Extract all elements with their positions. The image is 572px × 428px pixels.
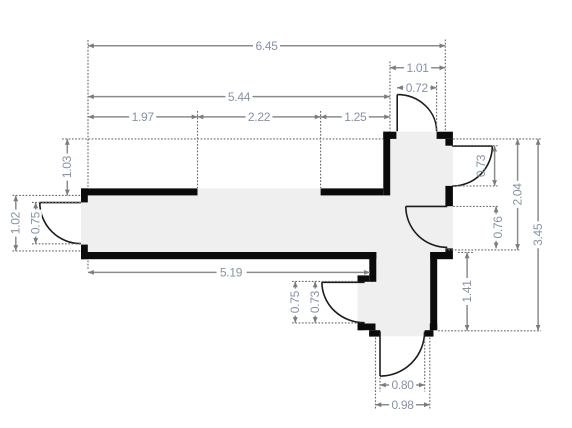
extension: 1.97/2.22 boundary [197, 111, 199, 188]
wall: wing top, left of door [383, 132, 396, 139]
extension: bottom door leaf left (0.80) [379, 378, 381, 392]
dim line 0.80 [380, 384, 425, 386]
extension: corridor inner-left below (5.19) [87, 261, 89, 270]
door: lower wing bottom exterior door swing arc [380, 332, 425, 377]
extension: top door right (0.72) [436, 82, 438, 131]
arrows for dim 1.02 (vertical) [13, 195, 18, 201]
wall: wing right, piece between right door and interior door [445, 186, 453, 206]
dim line 0.75 lower door [294, 281, 296, 323]
wall: lower wing left, below door [358, 323, 365, 331]
extension: wing inner-right [444, 40, 446, 132]
door: corridor left exterior door swing arc [40, 203, 81, 244]
wall: bottom door right jamb [425, 330, 434, 336]
extension: wing inner-left [389, 62, 391, 132]
svg-text:3.45: 3.45 [531, 223, 545, 246]
svg-text:0.72: 0.72 [406, 81, 429, 95]
extension: left door bottom [32, 243, 81, 245]
dim line 1.02 [15, 195, 17, 251]
label 6.45 [253, 39, 280, 52]
svg-text:0.80: 0.80 [392, 378, 415, 392]
svg-text:5.19: 5.19 [220, 266, 243, 280]
dim line 0.73 right door [494, 146, 496, 186]
extension: 2.22/1.25 boundary [320, 111, 322, 188]
dim line 5.19 [88, 271, 370, 273]
label 1.02 (rotated) [9, 210, 22, 237]
arrows for dim 5.19 [88, 270, 94, 275]
extension: left door top [32, 201, 81, 203]
dim line 0.75 left door [35, 202, 37, 243]
wall: corridor left, stub above door [81, 188, 88, 202]
wall: corridor top, left segment [81, 188, 198, 195]
door: wing right exterior door swing arc [452, 146, 492, 186]
arrows for dim 0.75 left door (vertical) [33, 202, 38, 208]
dim line 1.25 [321, 116, 390, 118]
door: wing top exterior door swing arc [397, 95, 436, 132]
label 1.25 [342, 110, 369, 123]
wall: lower wing right [430, 252, 437, 330]
svg-text:1.41: 1.41 [460, 280, 474, 303]
extension: wing top inner, long left [62, 138, 383, 140]
floor area [81, 132, 453, 337]
arrows for dim 1.97 [88, 115, 94, 120]
svg-text:0.76: 0.76 [491, 216, 505, 239]
arrows for dim 5.44 [88, 94, 94, 99]
label 0.76 (rotated) [491, 214, 504, 241]
arrows for dim 1.41 (vertical) [465, 252, 470, 258]
dim line 1.41 [466, 252, 468, 330]
wall: lower wing left door top jamb [358, 275, 370, 281]
label 0.73 lower door (rotated) [308, 289, 321, 316]
wall: lower wing left vertical piece [369, 252, 376, 282]
extension: bottom door inner right (0.80) [424, 338, 426, 392]
wall: corridor left, stub below door [81, 245, 88, 260]
dim line 1.97 [88, 116, 198, 118]
arrows for dim 0.76 (vertical) [494, 206, 499, 212]
dim line 0.73 lower door [314, 281, 316, 323]
label 2.22 [246, 110, 273, 123]
arrows for dim 0.98 [376, 402, 382, 407]
label 0.98 [389, 398, 416, 411]
label 0.75 left door (rotated) [29, 210, 42, 237]
label 5.19 [217, 266, 247, 279]
arrows for dim 0.72 [397, 85, 403, 90]
wall: lower wing bottom, right of door [430, 324, 437, 331]
arrows for dim 1.25 [321, 115, 327, 120]
dim line 0.72 [397, 87, 437, 89]
dim line 1.03 [66, 139, 68, 196]
extension: corridor top inner, left [13, 194, 82, 196]
wall: lower wing bottom, left of door [358, 324, 376, 331]
wall: corridor bottom, right piece under wing [430, 252, 453, 259]
svg-text:2.22: 2.22 [248, 110, 271, 124]
label 2.04 (rotated) [511, 181, 524, 208]
label 1.01 [404, 61, 431, 74]
door: lower wing left exterior door swing arc [322, 282, 365, 322]
extension: wing top inner, right [453, 138, 541, 140]
arrows for dim 0.73 lower door (vertical) [313, 281, 318, 287]
door: wing interior door swing arc [406, 206, 448, 247]
wall: bottom door left jamb [369, 330, 380, 336]
arrows for dim 0.73 right door (vertical) [492, 146, 497, 152]
svg-text:1.97: 1.97 [132, 110, 155, 124]
dim line 5.44 [88, 96, 390, 98]
extension: right door bottom [453, 185, 497, 187]
extension: lower-left door top [292, 280, 357, 282]
label 1.03 (rotated) [60, 154, 73, 181]
arrows for dim 0.80 [380, 383, 386, 388]
label 0.75 lower door (rotated) [288, 289, 301, 316]
extension: right door top [453, 145, 497, 147]
svg-text:2.04: 2.04 [510, 183, 524, 206]
label 0.72 [403, 81, 430, 94]
extension: 1.41 top [458, 251, 474, 253]
dimension lines [16, 46, 538, 405]
label 3.45 (rotated) [531, 221, 544, 248]
dim line 0.98 [376, 404, 430, 406]
arrows for dim 1.01 [390, 65, 396, 70]
label 1.97 [129, 110, 156, 123]
extension: interior door top [453, 205, 499, 207]
door: wing interior door leaf [406, 206, 448, 247]
dim line 6.45 [88, 45, 445, 47]
svg-text:0.75: 0.75 [288, 290, 302, 313]
svg-text:1.03: 1.03 [60, 155, 74, 178]
svg-text:1.02: 1.02 [9, 211, 23, 234]
arrowheads [13, 43, 540, 407]
svg-text:0.75: 0.75 [28, 211, 42, 234]
wall: wing top, right of door [437, 132, 453, 139]
wall: corridor top, right segment [321, 188, 384, 195]
label 1.41 (rotated) [460, 278, 473, 305]
extension: lower wing bottom outer [438, 330, 541, 332]
svg-text:0.73: 0.73 [308, 290, 322, 313]
arrows for dim 0.75 lower door (vertical) [293, 281, 298, 287]
svg-text:6.45: 6.45 [256, 39, 279, 53]
arrows for dim 3.45 (vertical) [536, 139, 541, 145]
extension: lower-left door bottom [292, 322, 357, 324]
extension: corridor inner-left vertical [87, 40, 89, 188]
door: wing right exterior door leaf [452, 146, 492, 186]
arrows for dim 1.03 (vertical) [65, 139, 70, 145]
dim line 2.04 [517, 139, 519, 250]
wall: wing right, stub below interior door [445, 248, 453, 252]
dim line 1.01 [390, 67, 445, 69]
wall: wing left [383, 132, 390, 196]
arrows for dim 2.22 [198, 115, 204, 120]
door: lower wing bottom exterior door leaf [380, 332, 425, 377]
svg-text:5.44: 5.44 [228, 90, 251, 104]
extension: interior door bottom / corridor inner bottom right [445, 249, 520, 251]
dim line 3.45 [537, 139, 539, 331]
svg-text:0.98: 0.98 [392, 398, 415, 412]
wall: wing right, piece above right door [445, 139, 453, 146]
extension: bottom door outer right (0.98) [429, 338, 431, 411]
door: wing top exterior door leaf [397, 95, 436, 132]
door: lower wing left exterior door leaf [322, 282, 365, 322]
arrows for dim 2.04 (vertical) [515, 139, 520, 145]
extension: bottom door outer left (0.98) [375, 338, 377, 411]
arrows for dim 6.45 [88, 43, 94, 48]
extension: corridor bottom inner, left [13, 250, 82, 252]
label 5.44 [226, 90, 253, 103]
svg-text:1.25: 1.25 [344, 110, 367, 124]
svg-text:0.73: 0.73 [474, 154, 488, 177]
dim line 2.22 [198, 116, 321, 118]
door: corridor left exterior door leaf [40, 203, 81, 244]
svg-text:1.01: 1.01 [407, 61, 430, 75]
label 0.80 [389, 379, 416, 392]
dim line 0.76 [495, 206, 497, 248]
wall: corridor bottom, left segment [81, 252, 376, 259]
